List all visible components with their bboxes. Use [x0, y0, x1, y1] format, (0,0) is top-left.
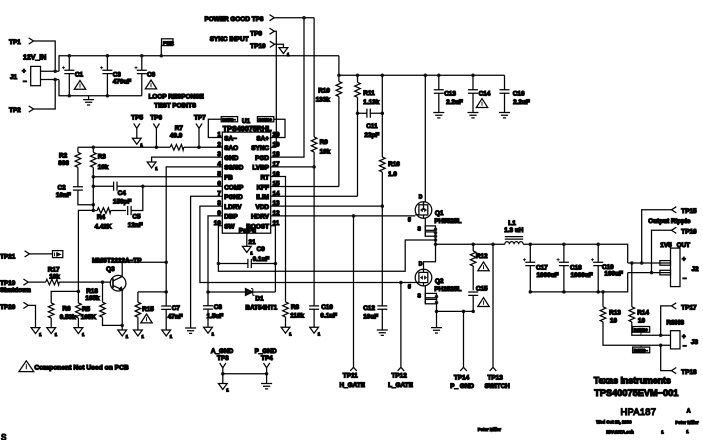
svg-text:Shutdown: Shutdown	[0, 287, 31, 294]
pin 7 PGND to ground	[185, 196, 222, 333]
svg-text:TP20: TP20	[0, 304, 16, 311]
svg-text:−: −	[683, 276, 687, 283]
wire switch node	[436, 242, 505, 246]
svg-text:1: 1	[686, 429, 689, 434]
svg-text:150pF: 150pF	[113, 199, 132, 206]
capacitor C1	[62, 54, 84, 98]
svg-text:R18: R18	[86, 288, 98, 295]
svg-text:Texas Instruments: Texas Instruments	[594, 375, 671, 385]
svg-text:12nF: 12nF	[128, 222, 143, 229]
svg-text:17: 17	[273, 161, 281, 168]
not-used triangle at C1	[74, 80, 85, 89]
svg-text:−: −	[23, 78, 27, 85]
svg-text:C6: C6	[147, 72, 156, 79]
capacitor C12 10uF	[363, 206, 388, 335]
wire SAO line	[78, 146, 222, 148]
pin 12 HDRV wire	[271, 214, 416, 218]
svg-text:R6: R6	[62, 305, 71, 312]
svg-text:FB: FB	[224, 175, 233, 182]
svg-text:TEST POINTS: TEST POINTS	[154, 102, 197, 109]
IC U1 TPS40075RHL	[222, 118, 272, 235]
svg-text:0.1uF: 0.1uF	[320, 313, 337, 320]
svg-text:TP5: TP5	[131, 114, 143, 121]
svg-text:S: S	[1, 433, 6, 440]
svg-text:D: D	[419, 261, 423, 267]
svg-text:TP1: TP1	[9, 39, 21, 46]
svg-text:R7: R7	[175, 125, 184, 132]
svg-text:C15: C15	[476, 285, 488, 292]
svg-text:S: S	[418, 294, 422, 300]
svg-text:TP15: TP15	[681, 208, 697, 215]
svg-text:R14: R14	[637, 309, 649, 316]
svg-text:1: 1	[661, 430, 664, 435]
diode D1 BAT54HT1	[208, 289, 278, 312]
svg-text:D1: D1	[255, 296, 264, 303]
test point TP9 SYNC INPUT	[210, 28, 276, 147]
svg-text:−: −	[683, 343, 687, 350]
pin 16 RT wire	[271, 177, 286, 302]
svg-text:C7: C7	[172, 305, 181, 312]
svg-text:RSNS+: RSNS+	[259, 117, 273, 122]
svg-text:C9: C9	[257, 246, 266, 253]
test point TP18	[661, 345, 697, 376]
svg-text:COMP: COMP	[224, 184, 244, 191]
capacitor C13 2.2uF	[433, 75, 463, 118]
svg-text:HPA187: HPA187	[621, 407, 657, 417]
not-used triangle at R12	[478, 262, 489, 271]
svg-text:R10: R10	[318, 87, 330, 94]
test point TP12 L_GATE	[388, 283, 413, 389]
svg-text:PWR: PWR	[163, 40, 174, 45]
test point TP4 P_GND	[255, 348, 277, 389]
svg-text:RT: RT	[260, 175, 269, 182]
svg-text:105K: 105K	[81, 314, 97, 321]
test point TP6	[150, 114, 162, 149]
resistor R5 105K	[74, 290, 96, 337]
capacitor C8 1.5uF	[203, 304, 223, 336]
pin 4 SS/SD wire	[164, 167, 222, 294]
svg-text:5: 5	[217, 171, 221, 178]
svg-text:C16: C16	[513, 90, 525, 97]
capacitor C19 100uF	[591, 244, 623, 293]
svg-text:ILIM: ILIM	[256, 194, 269, 201]
svg-text:+: +	[682, 334, 686, 341]
test point TP7	[194, 114, 206, 149]
svg-text:A_GND: A_GND	[211, 348, 234, 355]
test point TP3 A_GND	[211, 348, 234, 393]
svg-text:+: +	[682, 256, 686, 263]
svg-text:TP14: TP14	[454, 375, 470, 382]
resistor R6 9.53k	[47, 291, 79, 336]
svg-text:C13: C13	[444, 90, 456, 97]
capacitor C11 22pF	[358, 109, 385, 139]
pin 1 SA- wire to flag	[208, 119, 222, 137]
resistor R12	[470, 244, 488, 290]
svg-text:C12: C12	[363, 305, 375, 312]
capacitor C14	[468, 75, 491, 118]
svg-text:R16: R16	[388, 161, 400, 168]
pin 19 SYNC stub	[271, 146, 277, 148]
svg-text:C18: C18	[570, 264, 582, 271]
svg-text:C8: C8	[214, 304, 223, 311]
capacitor C4 150pF	[93, 182, 222, 206]
svg-text:J1: J1	[10, 74, 18, 81]
svg-text:J2: J2	[692, 266, 700, 273]
capacitor C3 470uF	[100, 54, 131, 98]
svg-text:806: 806	[58, 160, 69, 167]
test point TP16	[652, 227, 698, 272]
svg-text:VDD: VDD	[256, 204, 270, 211]
pin 13 VDD wire	[271, 204, 384, 208]
svg-text:HPA187A.sch: HPA187A.sch	[606, 430, 634, 435]
wire SS/C7 node	[138, 291, 166, 293]
test point TP13 SWITCH	[485, 244, 511, 390]
wire Q1 drain	[424, 75, 426, 210]
svg-text:9.53k: 9.53k	[60, 314, 76, 321]
svg-text:BAT54HT1: BAT54HT1	[245, 304, 277, 311]
svg-text:C5: C5	[132, 214, 141, 221]
svg-text:g: g	[408, 284, 411, 290]
svg-text:Wed Oct 18, 2006: Wed Oct 18, 2006	[596, 419, 632, 424]
svg-text:HDRV: HDRV	[251, 214, 270, 221]
svg-text:C10: C10	[321, 304, 333, 311]
test point TP17	[661, 303, 697, 335]
resistor R16 1.0	[380, 75, 401, 206]
svg-text:P_ GND: P_ GND	[450, 383, 474, 390]
Q1 source pads	[425, 218, 437, 246]
svg-text:A: A	[687, 408, 691, 414]
wire LVBP	[271, 165, 316, 169]
svg-text:47nF: 47nF	[168, 314, 183, 321]
wire P_GND bus	[437, 310, 475, 314]
wire FB line	[92, 177, 223, 211]
svg-text:LDRV: LDRV	[224, 204, 242, 211]
svg-text:SA−: SA−	[224, 135, 237, 142]
pin 3 GND to ground	[147, 157, 222, 171]
wire J2 plus row	[628, 261, 671, 265]
resistor R10 133k	[316, 56, 342, 187]
svg-text:RSNS+: RSNS+	[634, 327, 649, 332]
svg-text:SAO: SAO	[224, 145, 238, 152]
svg-text:105k: 105k	[85, 295, 100, 302]
svg-text:LVBP: LVBP	[252, 165, 269, 172]
transistor Q1 PH5525L	[408, 194, 462, 232]
svg-text:KFF: KFF	[257, 184, 270, 191]
svg-text:TP11: TP11	[343, 373, 358, 380]
capacitor C7 47nF	[161, 292, 183, 339]
pin 21 PwPd ground	[242, 233, 256, 255]
svg-text:R9: R9	[320, 139, 329, 146]
resistor R2 806	[58, 147, 80, 186]
resistor R11 1.13k	[355, 75, 380, 115]
svg-text:D: D	[419, 194, 423, 200]
svg-text:C1: C1	[75, 72, 84, 79]
svg-text:R12: R12	[476, 253, 488, 260]
connector J1 12V_IN	[10, 55, 59, 86]
svg-text:R2: R2	[59, 152, 68, 159]
wire FB stub to shutdown divider	[78, 210, 93, 291]
svg-text:SW: SW	[224, 224, 235, 231]
svg-text:SA+: SA+	[256, 135, 269, 142]
svg-text:4.42K: 4.42K	[95, 224, 112, 231]
svg-text:TP3: TP3	[217, 355, 229, 362]
svg-text:TP7: TP7	[194, 114, 206, 121]
svg-text:1.3 uH: 1.3 uH	[504, 227, 524, 234]
U1 left pin names	[224, 135, 244, 230]
ground input bus	[83, 96, 94, 105]
svg-text:RSNS: RSNS	[666, 320, 684, 327]
test point TP14 P_GND	[450, 311, 474, 390]
resistor R14 10	[629, 263, 671, 337]
resistor R17 10k	[46, 266, 111, 285]
svg-text:SS/SD: SS/SD	[224, 165, 244, 172]
Q2 source pads	[425, 286, 438, 313]
svg-text:g: g	[408, 216, 411, 222]
not-used triangle at C6	[145, 80, 156, 89]
resistor R18 105k	[85, 282, 122, 325]
svg-text:10k: 10k	[320, 148, 331, 155]
wire J2 minus row	[628, 271, 671, 275]
svg-text:C14: C14	[479, 90, 491, 97]
svg-text:TP10: TP10	[250, 43, 266, 50]
resistor R7 49.9	[170, 125, 184, 150]
svg-text:10k: 10k	[98, 164, 109, 171]
not-used triangle at C14	[476, 99, 487, 108]
pin 14 ILIM wire	[271, 195, 358, 197]
svg-text:R8: R8	[291, 304, 300, 311]
svg-text:TP21: TP21	[0, 253, 16, 260]
svg-text:R3: R3	[98, 154, 107, 161]
svg-text:TP17: TP17	[681, 305, 697, 312]
not-used triangle at R15	[141, 314, 152, 323]
net flag RSNS+ at R14	[633, 327, 650, 336]
svg-text:100uF: 100uF	[604, 270, 623, 277]
svg-text:18: 18	[273, 151, 281, 158]
pin 8 LDRV wire	[200, 206, 415, 284]
resistor R8 118k	[281, 302, 304, 337]
svg-text:TPS40075EVM−001: TPS40075EVM−001	[594, 388, 678, 398]
svg-text:Output Ripple: Output Ripple	[648, 218, 691, 225]
svg-text:10uF: 10uF	[363, 313, 378, 320]
svg-text:470uF: 470uF	[113, 79, 132, 86]
net flag RSNS+ at U1	[257, 117, 273, 122]
svg-text:L_GATE: L_GATE	[388, 382, 413, 389]
net flag RSNS- at U1	[221, 117, 237, 122]
svg-text:R15: R15	[142, 306, 154, 313]
capacitor C5 12nF	[128, 186, 143, 229]
svg-text:R4: R4	[97, 214, 106, 221]
wire VIN bus 2	[339, 74, 505, 78]
svg-text:TP9: TP9	[250, 31, 262, 38]
resistor R13 10	[600, 292, 670, 347]
pin 20 SA+ wire to flag	[271, 119, 285, 137]
U1 right pin names	[246, 135, 269, 230]
test point TP20	[0, 302, 42, 337]
svg-text:R5: R5	[82, 306, 91, 313]
test point TP8 POWER GOOD	[205, 15, 315, 23]
svg-text:Peter Miller: Peter Miller	[675, 420, 698, 425]
svg-text:1.5uF: 1.5uF	[207, 313, 224, 320]
svg-text:PGND: PGND	[224, 194, 243, 201]
resistor R9 10k	[311, 18, 330, 167]
wire PGD to TP8	[271, 18, 304, 157]
transistor Q2 PH2525L	[408, 261, 462, 299]
resistor R3 10k	[91, 146, 109, 179]
svg-text:TP16: TP16	[681, 229, 697, 236]
test point TP10	[250, 41, 290, 57]
wire Q2 drain to switch node	[424, 244, 436, 269]
svg-text:PGD: PGD	[255, 155, 269, 162]
svg-text:1000uF: 1000uF	[571, 272, 593, 279]
svg-text:118k: 118k	[290, 313, 304, 320]
wire VOUT line	[523, 242, 628, 263]
test point TP11 H_GATE	[340, 216, 366, 389]
svg-text:C17: C17	[536, 264, 548, 271]
svg-text:TP4: TP4	[261, 355, 273, 362]
svg-text:SYNC: SYNC	[251, 145, 269, 152]
pin 10 SW wire	[217, 226, 438, 272]
inductor L1 1.3 uH	[504, 220, 524, 244]
capacitor C17 1000uF	[523, 244, 559, 293]
svg-text:R13: R13	[609, 309, 621, 316]
legend not-used triangle	[19, 361, 34, 372]
svg-text:TP12: TP12	[392, 373, 408, 380]
wire input bottom bus	[59, 80, 142, 96]
svg-text:2.2uF: 2.2uF	[513, 99, 530, 106]
svg-text:+: +	[22, 68, 26, 75]
svg-text:TPS40075RHL: TPS40075RHL	[223, 124, 272, 133]
svg-text:PH2525L: PH2525L	[434, 286, 461, 293]
capacitor C18 1000uF	[557, 244, 593, 293]
svg-text:S: S	[418, 227, 422, 233]
resistor R4 4.42K	[92, 208, 126, 231]
capacitor C10 0.1uF	[309, 167, 337, 337]
net flag RSNS- at R13	[633, 345, 650, 353]
svg-text:Q1: Q1	[435, 210, 444, 217]
svg-text:BOOST: BOOST	[246, 224, 269, 231]
test point TP2	[9, 80, 55, 115]
svg-text:22pF: 22pF	[364, 132, 379, 139]
transistor Q3 MMST2222A-TP	[92, 257, 142, 291]
svg-text:Q2: Q2	[435, 278, 444, 285]
wire ILIM riser	[357, 113, 359, 196]
svg-text:SYNC INPUT: SYNC INPUT	[210, 36, 249, 43]
svg-text:C11: C11	[366, 123, 378, 130]
svg-text:RSNS−: RSNS−	[634, 348, 649, 353]
svg-text:21: 21	[249, 239, 257, 246]
svg-text:0.1uF: 0.1uF	[253, 256, 270, 263]
svg-text:Component Not Used on PCB: Component Not Used on PCB	[34, 365, 129, 372]
test point TP19 Shutdown	[0, 279, 46, 294]
net flag PWR	[160, 39, 175, 58]
svg-text:2.2uF: 2.2uF	[446, 99, 463, 106]
pin 11 BOOST wire	[271, 226, 276, 292]
wire output gnd bus	[530, 273, 627, 294]
U1 right pin numbers	[273, 132, 281, 227]
svg-text:Peter Miller: Peter Miller	[478, 427, 501, 432]
connector J2 OUT	[660, 242, 699, 287]
svg-text:P_GND: P_GND	[255, 348, 277, 355]
svg-text:10: 10	[638, 317, 646, 324]
label loop response test points	[149, 94, 205, 110]
svg-text:PH5525L: PH5525L	[434, 218, 461, 225]
svg-text:2: 2	[217, 141, 221, 148]
not-used triangle at C15	[478, 298, 489, 307]
svg-text:POWER GOOD TP8: POWER GOOD TP8	[205, 16, 264, 23]
svg-text:RSNS−: RSNS−	[222, 117, 236, 122]
test point TP21	[0, 251, 53, 261]
svg-text:1.13k: 1.13k	[363, 99, 379, 106]
connector J3 RSNS	[666, 320, 698, 350]
ground Q2 source	[431, 311, 442, 333]
capacitor C2 10nF	[56, 184, 95, 206]
svg-text:R11: R11	[363, 90, 375, 97]
svg-text:R17: R17	[48, 266, 60, 273]
svg-text:L1: L1	[508, 220, 516, 227]
svg-text:J3: J3	[691, 339, 699, 346]
svg-text:12V_IN: 12V_IN	[23, 55, 46, 62]
svg-text:133k: 133k	[316, 97, 331, 104]
svg-text:DBP: DBP	[224, 214, 238, 221]
svg-text:10: 10	[610, 317, 618, 324]
svg-text:TP18: TP18	[681, 369, 697, 376]
wire TP3 to TP4	[223, 373, 267, 375]
svg-text:6: 6	[217, 181, 221, 188]
capacitor C15	[468, 285, 488, 311]
svg-text:H_GATE: H_GATE	[340, 382, 366, 389]
wire Q3 collector to SS/SD	[122, 262, 166, 276]
pin 15 KFF wire	[271, 186, 339, 188]
svg-text:10k: 10k	[49, 273, 60, 280]
resistor R15	[134, 292, 155, 339]
svg-text:MMST2222A−TP: MMST2222A−TP	[92, 257, 142, 264]
svg-text:LOOP RESPONSE: LOOP RESPONSE	[149, 94, 205, 101]
svg-text:C3: C3	[113, 72, 122, 79]
test point TP1	[9, 38, 55, 71]
test point TP15	[642, 207, 697, 263]
svg-text:SWITCH: SWITCH	[485, 383, 511, 390]
capacitor C6	[135, 54, 156, 96]
svg-text:10nF: 10nF	[56, 192, 71, 199]
svg-text:TP2: TP2	[9, 107, 21, 114]
svg-text:C2: C2	[58, 184, 67, 191]
svg-text:49.9: 49.9	[170, 132, 183, 139]
U1 left pin numbers	[214, 132, 222, 227]
svg-text:1.0: 1.0	[388, 171, 397, 178]
svg-text:C4: C4	[118, 190, 127, 197]
pin 9 DBP wire	[206, 216, 222, 306]
svg-text:TP6: TP6	[150, 114, 162, 121]
capacitor C16 2.2uF	[499, 75, 530, 118]
svg-text:1000uF: 1000uF	[537, 272, 559, 279]
svg-text:GND: GND	[224, 155, 239, 162]
capacitor C9 0.1uF	[218, 246, 277, 268]
test point TP5	[131, 114, 143, 147]
wire Q3 emitter to ground	[118, 290, 129, 339]
wire VIN top bus	[59, 56, 339, 72]
svg-text:Q3: Q3	[106, 266, 115, 273]
net flag at TP21	[53, 251, 63, 258]
svg-text:TP13: TP13	[488, 375, 504, 382]
